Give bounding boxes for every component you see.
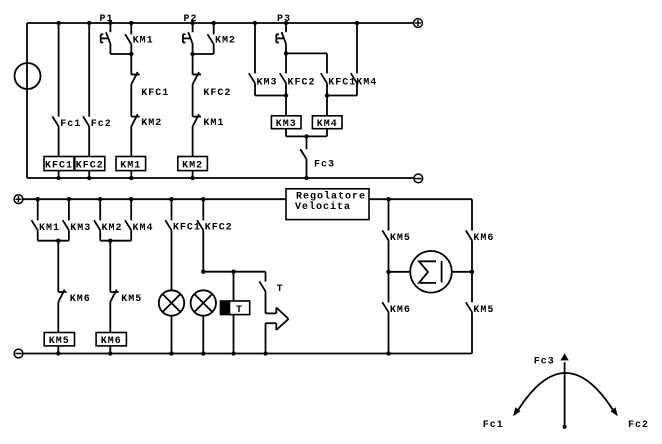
wire regulator to bridge top — [369, 198, 472, 200]
wire top supply rail (+) of control circuit — [27, 22, 414, 24]
wire KFC1 coil to bottom rail — [58, 171, 60, 178]
wire KM1 contact upper (bottom circuit) — [37, 199, 39, 220]
contact KM5 (NO, bridge upper-left) — [382, 230, 388, 240]
svg-text:KFC2: KFC2 — [205, 222, 233, 233]
svg-text:KFC2: KFC2 — [203, 88, 231, 99]
svg-text:KM6: KM6 — [70, 294, 91, 305]
junction on top rail at P3 branch — [284, 21, 288, 25]
wire P1 upper stub — [109, 23, 111, 32]
contact KFC1 (NO) — [165, 220, 171, 230]
contact KM3 (NO) — [249, 73, 255, 83]
contact KFC1 (NO) — [321, 73, 327, 83]
wire cam vertical axis — [564, 362, 566, 427]
wire KM2 contact upper (bottom circuit) — [99, 199, 101, 220]
svg-text:KM3: KM3 — [257, 77, 278, 88]
junction on top rail at Fc2 branch — [87, 21, 91, 25]
svg-text:P2: P2 — [184, 14, 198, 25]
wire P2 lower stub — [192, 44, 194, 54]
wire bridge top right corner — [471, 199, 473, 230]
node KM1/KM3 junction — [56, 239, 60, 243]
junction on bottom-circuit top rail at KM2 branch — [98, 197, 102, 201]
summing amplifier M1 — [410, 251, 452, 293]
node P1/KM1 junction — [129, 52, 133, 56]
wire KM3 contact upper (bottom circuit) — [68, 199, 70, 220]
contact KM6 (NO, bridge upper-right) — [466, 230, 472, 240]
node P2/KM2 junction — [190, 52, 194, 56]
wire lamp H2 to bottom rail — [202, 315, 204, 353]
coil KFC2 — [75, 157, 105, 171]
regulator U1 (Regolatore Velocita) — [286, 189, 369, 220]
junction lamp H2 on bottom rail — [201, 351, 205, 355]
svg-text:KM6: KM6 — [473, 233, 494, 244]
wire KM3 coil down — [285, 129, 287, 137]
lamp H1 (indicator) — [159, 290, 184, 315]
svg-text:KM5: KM5 — [473, 305, 494, 316]
wire amplifier to bottom rail — [265, 323, 267, 353]
svg-text:KFC2: KFC2 — [288, 77, 316, 88]
svg-text:Fc3: Fc3 — [534, 356, 555, 367]
wire KM6 coil to bottom rail — [109, 346, 111, 354]
svg-text:Regolatore: Regolatore — [296, 191, 366, 203]
timer T (black sensing block) — [220, 301, 229, 315]
coil KFC1 — [44, 157, 74, 171]
wire Fc2 branch upper — [88, 23, 90, 117]
wire node to KM6 contact — [57, 241, 59, 292]
coil KM2 — [178, 157, 208, 171]
wire KM4 contact lower — [130, 230, 132, 241]
junction KM6 coil on bottom rail — [108, 351, 112, 355]
svg-text:KM2: KM2 — [182, 161, 203, 172]
junction lamp H1 on bottom rail — [169, 351, 173, 355]
junction on bottom-circuit top rail at KFC1 branch — [169, 197, 173, 201]
node KM2/KM4 junction — [108, 239, 112, 243]
wire KM6 contact to bridge right node — [471, 240, 473, 271]
junction on top rail at P1 branch — [108, 21, 112, 25]
node cam pivot — [563, 425, 567, 429]
contact KM5 (NO, bridge lower-right) — [466, 302, 472, 312]
svg-text:KFC1: KFC1 — [141, 88, 169, 99]
svg-text:KM2: KM2 — [141, 118, 162, 129]
wire bridge left node down — [388, 272, 390, 303]
contact KM6 (NC) — [58, 291, 66, 293]
wire P3 node to KFC1 branch — [286, 52, 327, 54]
coil KM3 — [271, 116, 301, 129]
node KFC2 branch junction — [201, 270, 205, 274]
contact KFC2 (NO) — [280, 73, 286, 83]
contact KFC2 (NO) — [197, 220, 203, 230]
svg-text:KFC1: KFC1 — [328, 77, 356, 88]
coil KM5 — [44, 333, 74, 346]
junction on bottom-circuit top rail at KM1 branch — [36, 197, 40, 201]
contact KM4 (NO) — [351, 73, 357, 83]
node KM3/KM4 coils junction — [304, 134, 308, 138]
junction on top rail at P2 branch — [190, 21, 194, 25]
wire KFC2 contact lower — [285, 83, 287, 95]
coil KM6 — [96, 333, 126, 346]
svg-text:P3: P3 — [277, 14, 291, 25]
svg-text:Fc2: Fc2 — [628, 420, 649, 431]
wire P1 lower stub — [109, 44, 111, 54]
wire rung1 node to KFC1 contact — [130, 54, 132, 75]
junction KFC1 on bottom rail — [56, 176, 60, 180]
wire P2 upper stub — [192, 23, 194, 32]
svg-text:Fc1: Fc1 — [483, 420, 504, 431]
svg-text:KM2: KM2 — [102, 223, 123, 234]
arrow Fc3 (up) — [560, 353, 568, 360]
contact KM1 (NO, seal-in) — [125, 34, 131, 44]
junction bridge left on bottom rail — [386, 351, 390, 355]
node P3 junction — [284, 51, 288, 55]
svg-text:KM6: KM6 — [390, 305, 411, 316]
timer T body — [229, 301, 249, 315]
junction on bottom-circuit top rail at KM3 branch — [67, 197, 71, 201]
arrow Fc1 (down-left) — [513, 407, 520, 416]
junction KFC2 on bottom rail — [87, 176, 91, 180]
svg-text:KM5: KM5 — [49, 336, 70, 347]
wire left supply rail — [26, 23, 28, 178]
node bridge right — [470, 270, 474, 274]
wire bottom circuit top rail — [23, 198, 286, 200]
svg-text:KM4: KM4 — [133, 223, 154, 234]
wire KM5 coil to bottom rail — [57, 346, 59, 354]
lamp H2 (indicator) — [191, 290, 216, 315]
terminal + (top right) — [414, 19, 423, 28]
wire KM3 contact branch upper — [254, 23, 256, 73]
svg-text:KM1: KM1 — [133, 35, 154, 46]
wire lamp H1 to bottom rail — [171, 315, 173, 353]
contact KM5 (NC) — [110, 291, 118, 293]
node KFC1/KM4 junction — [325, 93, 329, 97]
svg-text:Fc3: Fc3 — [314, 159, 335, 170]
svg-text:Velocita: Velocita — [295, 201, 351, 213]
wire KM4 contact branch upper — [356, 23, 358, 73]
contact KM2 (NO, seal-in) — [208, 34, 214, 44]
svg-text:Fc2: Fc2 — [91, 119, 112, 130]
junction timer on bottom rail — [231, 351, 235, 355]
svg-text:KM1: KM1 — [120, 161, 141, 172]
svg-text:KM5: KM5 — [390, 233, 411, 244]
wire KM1 contact lower stub — [130, 44, 132, 54]
wire KM3 contact lower — [68, 230, 70, 241]
source G1 (generator circle on left rail) — [15, 63, 41, 89]
terminal - (right of bottom rail) — [414, 174, 423, 183]
svg-text:KM5: KM5 — [121, 294, 142, 305]
wire node to KM5 contact — [109, 241, 111, 292]
svg-text:KM6: KM6 — [101, 336, 122, 347]
wire KM1 contact lower — [37, 230, 39, 241]
coil KM1 — [116, 157, 146, 171]
wire bottom return rail (-) of control circuit — [27, 177, 414, 179]
wire node to KM3 coil — [285, 96, 287, 116]
junction bridge top at KM5 — [386, 197, 390, 201]
contact KM1 (NC interlock) — [193, 116, 201, 118]
wire P3 upper stub — [285, 23, 287, 32]
svg-text:KM4: KM4 — [317, 119, 338, 130]
wire P3 lower stub — [285, 44, 287, 54]
junction KM1 coil on bottom rail — [129, 176, 133, 180]
wire KM2 contact upper stub — [213, 23, 215, 34]
wire KFC2 contact to node — [202, 230, 204, 272]
contact T (timer NO) — [259, 281, 265, 291]
svg-text:KFC1: KFC1 — [173, 222, 201, 233]
wire KFC2 coil to bottom rail — [88, 171, 90, 178]
wire KM4 contact lower — [356, 83, 358, 95]
svg-text:KM2: KM2 — [215, 35, 236, 46]
wire rung1 KFC1 to KM2 contact — [130, 84, 132, 116]
wire KFC2 contact upper stub — [285, 53, 287, 73]
wire rung1 KM2 contact to coil — [130, 126, 132, 156]
contact KFC1 (NC interlock) — [131, 74, 139, 76]
contact KM4 (NO) — [125, 220, 131, 230]
wire rung2 KFC2 to KM1 contact — [192, 84, 194, 116]
svg-text:KM1: KM1 — [39, 223, 60, 234]
junction on top rail at KM4 branch — [355, 21, 359, 25]
limit switch Fc2 (NO contact) — [83, 116, 89, 126]
contact KM1 (NO) — [32, 220, 38, 230]
wire KM5 lower contact to bottom rail corner — [471, 312, 473, 353]
wire rung2 node to KFC2 contact — [192, 54, 194, 75]
svg-text:KM1: KM1 — [203, 118, 224, 129]
wire KM6 lower contact to bottom rail — [388, 312, 390, 353]
contact KM2 (NO) — [94, 220, 100, 230]
wire KM5 contact to sum node — [388, 240, 390, 271]
wire bridge left to summing amp — [389, 271, 411, 273]
wire KM3 contact lower — [254, 83, 256, 95]
wire KM5 contact to KM6 coil — [109, 302, 111, 333]
limit switch Fc3 (NO contact) — [300, 149, 306, 159]
node KM3/KFC2 junction — [284, 93, 288, 97]
wire bridge right node down — [471, 272, 473, 303]
wire KM1 coil to bottom rail — [130, 171, 132, 178]
pushbutton P1 (NO) — [106, 32, 110, 44]
wire timer T to bottom rail — [233, 315, 235, 354]
wire bottom circuit bottom rail — [23, 353, 472, 355]
curve cam travel arc — [518, 373, 614, 411]
junction on top rail at KM1 branch — [129, 21, 133, 25]
svg-text:P1: P1 — [100, 14, 114, 25]
wire junction to Fc3 contact — [306, 136, 308, 149]
terminal + (bottom circuit left) — [14, 195, 23, 204]
junction KM5 coil on bottom rail — [56, 351, 60, 355]
junction on bottom-circuit top rail at KM4 branch — [129, 197, 133, 201]
svg-text:KFC1: KFC1 — [45, 161, 73, 172]
wire node to KM4 coil — [326, 96, 328, 116]
limit switch Fc1 (NO contact) — [52, 116, 58, 126]
wire rung2 KM1 contact to coil — [192, 126, 194, 156]
junction on top rail at Fc1 branch — [56, 21, 60, 25]
amplifier output arrow — [275, 308, 277, 314]
wire node to timer T — [233, 272, 235, 301]
wire KFC1 contact lower — [326, 83, 328, 95]
wire KFC1 contact to lamp — [171, 230, 173, 290]
contact KM3 (NO) — [63, 220, 69, 230]
wire KM6 contact to KM5 coil — [57, 302, 59, 333]
svg-text:KFC2: KFC2 — [76, 161, 104, 172]
contact KM2 (NC interlock) — [131, 116, 139, 118]
junction Fc3 on bottom rail — [304, 176, 308, 180]
wire T-contact upper stub — [265, 272, 267, 282]
svg-text:KM3: KM3 — [276, 119, 297, 130]
contact KM6 (NO, bridge lower-left) — [382, 302, 388, 312]
svg-text:KM3: KM3 — [70, 223, 91, 234]
wire KM4 contact upper (bottom circuit) — [130, 199, 132, 220]
svg-text:KM4: KM4 — [356, 77, 377, 88]
wire KM1 contact upper stub — [130, 23, 132, 34]
pushbutton P2 (NO) — [188, 32, 192, 44]
wire KM2 coil to bottom rail — [192, 171, 194, 178]
junction on top rail at KM2 branch — [212, 21, 216, 25]
wire Fc3 to bottom rail — [306, 159, 308, 178]
svg-text:T: T — [277, 284, 284, 295]
wire KFC1 contact upper stub — [326, 53, 328, 73]
wire Fc1 branch upper — [58, 23, 60, 117]
coil KM4 — [312, 116, 342, 129]
junction KM2 coil on bottom rail — [190, 176, 194, 180]
wire KFC1 contact upper (bottom circuit) — [171, 199, 173, 220]
wire KM5 contact upper (bridge) — [388, 199, 390, 230]
junction on top rail at KM3 branch — [253, 21, 257, 25]
wire KM2 contact lower stub — [213, 44, 215, 54]
node timer branch junction — [231, 270, 235, 274]
wire KFC2 contact upper (bottom circuit) — [202, 199, 204, 220]
junction amplifier branch on bottom rail — [263, 351, 267, 355]
node bridge left — [386, 270, 390, 274]
svg-text:Fc1: Fc1 — [60, 119, 81, 130]
terminal - (bottom circuit left) — [14, 349, 23, 358]
wire KM4 coil down — [326, 129, 328, 137]
arrow Fc2 (down-right) — [610, 407, 617, 416]
svg-text:T: T — [236, 305, 243, 316]
pushbutton P3 (NO) — [282, 32, 286, 44]
wire summing amp to bridge right — [452, 271, 472, 273]
wire node to timer/T-contact branches — [203, 271, 265, 273]
contact KFC2 (NC interlock) — [193, 74, 201, 76]
wire Fc1 branch lower — [58, 126, 60, 156]
wire T-contact to amplifier — [265, 291, 267, 313]
wire KM2 contact lower — [99, 230, 101, 241]
wire Fc2 branch lower — [88, 126, 90, 156]
junction on bottom-circuit top rail at KFC2 branch — [201, 197, 205, 201]
